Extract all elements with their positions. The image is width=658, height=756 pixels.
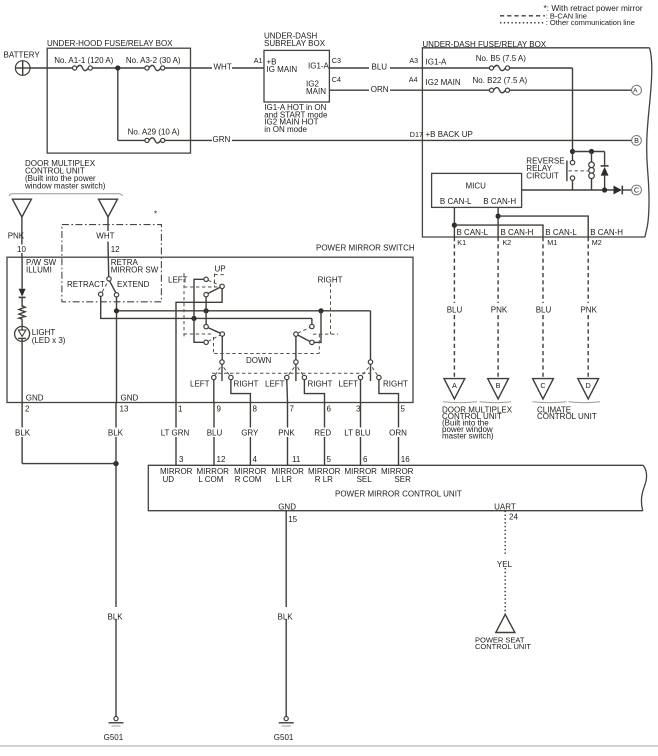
- svg-text:8: 8: [253, 404, 258, 413]
- svg-text:5: 5: [401, 404, 406, 413]
- svg-text:2: 2: [25, 404, 30, 413]
- svg-text:RIGHT: RIGHT: [308, 380, 333, 389]
- svg-text:B CAN-H: B CAN-H: [590, 228, 623, 237]
- svg-text:6: 6: [363, 455, 368, 464]
- svg-text:CIRCUIT: CIRCUIT: [526, 172, 559, 181]
- svg-text:LT GRN: LT GRN: [161, 429, 190, 438]
- svg-text:12: 12: [217, 455, 226, 464]
- svg-text:B CAN-L: B CAN-L: [545, 228, 577, 237]
- svg-text:RIGHT: RIGHT: [383, 380, 408, 389]
- svg-text:*: *: [154, 210, 157, 219]
- svg-text:ORN: ORN: [389, 429, 407, 438]
- svg-text:IG2 MAIN: IG2 MAIN: [426, 78, 461, 87]
- svg-text:LEFT: LEFT: [168, 276, 188, 285]
- svg-text:: Other communication line: : Other communication line: [546, 18, 635, 27]
- svg-text:M2: M2: [592, 238, 602, 247]
- svg-text:RED: RED: [314, 429, 331, 438]
- svg-text:GND: GND: [26, 394, 44, 403]
- svg-text:10: 10: [17, 245, 26, 254]
- svg-text:CONTROL UNIT: CONTROL UNIT: [475, 642, 531, 651]
- svg-text:POWER MIRROR CONTROL UNIT: POWER MIRROR CONTROL UNIT: [335, 489, 462, 498]
- svg-text:SUBRELAY BOX: SUBRELAY BOX: [264, 39, 326, 48]
- svg-text:A3: A3: [409, 56, 418, 65]
- svg-text:B CAN-L: B CAN-L: [440, 197, 472, 206]
- svg-text:IG MAIN: IG MAIN: [267, 65, 298, 74]
- svg-text:BLU: BLU: [372, 63, 388, 72]
- svg-text:B CAN-L: B CAN-L: [457, 228, 489, 237]
- svg-text:ILLUMI: ILLUMI: [26, 265, 52, 274]
- svg-text:24: 24: [509, 512, 518, 521]
- svg-text:A1: A1: [254, 56, 263, 65]
- svg-text:1: 1: [178, 404, 183, 413]
- svg-text:IG1-A: IG1-A: [308, 62, 330, 71]
- svg-text:D: D: [586, 381, 591, 390]
- svg-text:YEL: YEL: [497, 560, 513, 569]
- svg-text:BLU: BLU: [207, 429, 223, 438]
- svg-text:No. A29 (10 A): No. A29 (10 A): [128, 128, 180, 137]
- svg-text:B CAN-H: B CAN-H: [483, 197, 516, 206]
- svg-text:UART: UART: [494, 503, 516, 512]
- svg-text:RIGHT: RIGHT: [234, 380, 259, 389]
- svg-text:BLU: BLU: [536, 306, 552, 315]
- svg-text:IG1-A: IG1-A: [426, 57, 448, 66]
- svg-text:GRN: GRN: [213, 135, 231, 144]
- svg-text:GND: GND: [121, 394, 139, 403]
- svg-text:BATTERY: BATTERY: [4, 50, 41, 59]
- svg-text:C4: C4: [332, 75, 341, 84]
- svg-text:No. B5 (7.5 A): No. B5 (7.5 A): [476, 54, 527, 63]
- svg-text:15: 15: [288, 515, 297, 524]
- svg-text:POWER MIRROR SWITCH: POWER MIRROR SWITCH: [316, 244, 415, 253]
- svg-text:UP: UP: [215, 264, 226, 273]
- svg-text:4: 4: [253, 455, 258, 464]
- svg-text:master switch): master switch): [442, 431, 494, 440]
- svg-text:in ON mode: in ON mode: [264, 125, 307, 134]
- svg-text:B: B: [634, 136, 639, 145]
- svg-text:PNK: PNK: [580, 306, 597, 315]
- svg-text:SEL: SEL: [357, 475, 373, 484]
- svg-text:R LR: R LR: [315, 475, 333, 484]
- svg-text:PNK: PNK: [491, 306, 508, 315]
- svg-text:B CAN-H: B CAN-H: [501, 228, 534, 237]
- svg-text:ORN: ORN: [371, 85, 389, 94]
- svg-text:G501: G501: [104, 733, 124, 742]
- svg-text:B: B: [496, 381, 501, 390]
- svg-text:L COM: L COM: [198, 475, 223, 484]
- svg-text:R COM: R COM: [235, 475, 262, 484]
- svg-text:6: 6: [327, 404, 332, 413]
- svg-text:C: C: [634, 186, 639, 195]
- svg-text:+B BACK UP: +B BACK UP: [426, 130, 473, 139]
- svg-text:window master switch): window master switch): [24, 181, 106, 190]
- svg-text:C: C: [540, 381, 545, 390]
- svg-text:GRY: GRY: [241, 429, 259, 438]
- svg-text:BLK: BLK: [108, 613, 124, 622]
- svg-text:12: 12: [111, 245, 120, 254]
- svg-text:LT BLU: LT BLU: [344, 429, 371, 438]
- svg-text:MIRROR SW: MIRROR SW: [111, 265, 159, 274]
- svg-text:K1: K1: [457, 238, 466, 247]
- svg-text:9: 9: [217, 404, 222, 413]
- svg-text:3: 3: [179, 455, 184, 464]
- svg-text:LEFT: LEFT: [339, 380, 359, 389]
- svg-text:A: A: [452, 381, 457, 390]
- svg-text:11: 11: [292, 455, 301, 464]
- svg-text:WHT: WHT: [96, 232, 114, 241]
- svg-text:C3: C3: [332, 56, 341, 65]
- svg-text:CONTROL UNIT: CONTROL UNIT: [537, 412, 597, 421]
- svg-text:No. A1-1 (120 A): No. A1-1 (120 A): [54, 56, 113, 65]
- svg-text:RETRACT: RETRACT: [67, 280, 105, 289]
- svg-text:13: 13: [120, 404, 129, 413]
- svg-text:BLU: BLU: [447, 306, 463, 315]
- svg-text:BLK: BLK: [108, 429, 124, 438]
- svg-text:GND: GND: [278, 503, 296, 512]
- svg-text:A: A: [633, 88, 638, 95]
- svg-text:UD: UD: [163, 475, 175, 484]
- svg-text:5: 5: [327, 455, 332, 464]
- svg-text:M1: M1: [547, 238, 557, 247]
- svg-text:EXTEND: EXTEND: [117, 280, 150, 289]
- svg-text:No. A3-2 (30 A): No. A3-2 (30 A): [126, 56, 181, 65]
- svg-text:D17: D17: [410, 130, 423, 139]
- svg-text:LEFT: LEFT: [190, 380, 210, 389]
- svg-text:7: 7: [290, 404, 295, 413]
- svg-text:L LR: L LR: [275, 475, 292, 484]
- svg-text:MICU: MICU: [466, 182, 487, 191]
- svg-text:SER: SER: [394, 475, 411, 484]
- svg-text:RIGHT: RIGHT: [318, 276, 343, 285]
- svg-text:DOWN: DOWN: [246, 356, 272, 365]
- svg-text:16: 16: [401, 455, 410, 464]
- svg-text:MAIN: MAIN: [306, 87, 326, 96]
- svg-text:A4: A4: [409, 75, 418, 84]
- svg-text:BLK: BLK: [278, 613, 294, 622]
- svg-text:UNDER-HOOD FUSE/RELAY BOX: UNDER-HOOD FUSE/RELAY BOX: [47, 39, 173, 48]
- svg-text:No. B22 (7.5 A): No. B22 (7.5 A): [473, 76, 528, 85]
- svg-text:LEFT: LEFT: [265, 380, 285, 389]
- svg-text:PNK: PNK: [278, 429, 295, 438]
- svg-text:PNK: PNK: [8, 232, 25, 241]
- svg-text:BLK: BLK: [15, 429, 31, 438]
- svg-text:(LED x 3): (LED x 3): [32, 336, 66, 345]
- svg-text:G501: G501: [274, 733, 294, 742]
- svg-text:WHT: WHT: [214, 63, 232, 72]
- svg-text:K2: K2: [503, 238, 512, 247]
